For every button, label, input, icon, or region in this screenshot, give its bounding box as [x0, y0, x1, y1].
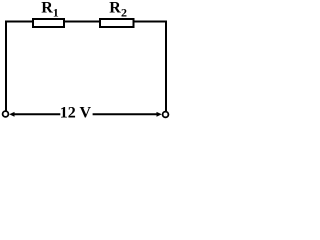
- voltage arrow right shaft: [93, 113, 158, 115]
- resistor R1: [33, 0, 64, 27]
- svg-text:12 V: 12 V: [60, 105, 92, 122]
- voltage arrow right head: [157, 112, 162, 117]
- node terminal right: [163, 112, 169, 118]
- voltage arrow left head: [9, 112, 14, 117]
- voltage arrow left shaft: [14, 113, 61, 115]
- wire top horizontal: [5, 21, 167, 23]
- svg-text:R: R: [41, 0, 53, 17]
- node terminal left: [3, 111, 9, 117]
- wire right vertical: [165, 21, 167, 112]
- svg-text:R: R: [109, 0, 121, 17]
- resistor R2: [100, 0, 134, 27]
- wire left vertical: [5, 21, 7, 112]
- svg-text:1: 1: [53, 6, 59, 20]
- svg-text:2: 2: [121, 6, 127, 20]
